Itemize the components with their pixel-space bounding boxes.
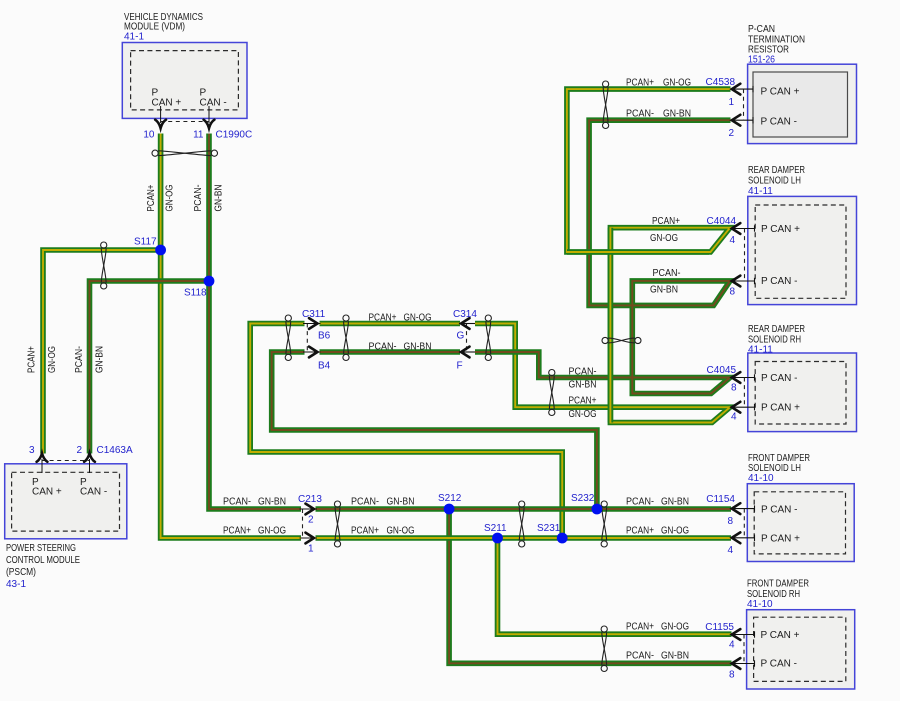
svg-text:POWER STEERING: POWER STEERING: [6, 543, 76, 554]
label PCAN+ GN-OG on wire to C4044 pin 4: [650, 216, 680, 244]
svg-text:PCAN+: PCAN+: [351, 526, 379, 537]
label PCAN- GN-BN on wire to C1155 pin 8: [626, 651, 689, 662]
label connector C1154 pins 8 and 4: [706, 494, 735, 556]
svg-text:2: 2: [76, 445, 82, 456]
svg-text:GN-OG: GN-OG: [569, 409, 597, 420]
svg-text:PCAN-: PCAN-: [569, 367, 597, 378]
svg-text:CAN +: CAN +: [152, 98, 182, 109]
wire PCAN- GN-BN from splice S212 down and right to C1155 pin 8: [449, 509, 731, 663]
svg-text:PCAN+: PCAN+: [146, 184, 157, 211]
svg-text:PCAN+: PCAN+: [626, 526, 654, 537]
connector C311 pins B6/B4 with arrows and dashed link: [303, 318, 321, 357]
svg-text:41-11: 41-11: [748, 186, 773, 197]
svg-text:8: 8: [729, 670, 735, 681]
svg-text:CONTROL MODULE: CONTROL MODULE: [6, 555, 80, 566]
label splice S231: [537, 523, 561, 534]
svg-text:43-1: 43-1: [6, 579, 26, 590]
pin text P CAN + inside front damper LH: [761, 533, 800, 544]
twisted pair symbol right of C311: [343, 315, 349, 361]
connector C314 pins G/F with arrows and dashed link: [459, 318, 475, 357]
svg-text:C1463A: C1463A: [97, 445, 133, 456]
title Power Steering Control Module: [6, 543, 80, 590]
svg-text:GN-OG: GN-OG: [663, 78, 691, 89]
connector C1463A pin stems, arrows and dashed link at PSCM: [37, 453, 95, 473]
label PCAN- GN-BN left of C213: [223, 497, 286, 508]
pin text P CAN + inside termination resistor: [761, 87, 800, 98]
splice S117: [155, 245, 166, 256]
svg-text:PCAN-: PCAN-: [369, 342, 397, 353]
svg-text:41-11: 41-11: [748, 345, 773, 356]
rear damper solenoid LH box: [748, 196, 857, 304]
wire PCAN+ GN-OG from C213 pin 1 through S211 and S231 to C1154 pin 4: [316, 535, 732, 541]
svg-text:REAR DAMPER: REAR DAMPER: [748, 324, 805, 335]
label connector C314: [453, 309, 477, 372]
connector C1990C pin stems, arrows and dashed link at VDM: [155, 106, 214, 128]
rear damper solenoid RH box: [748, 353, 857, 432]
svg-text:PCAN+: PCAN+: [652, 216, 680, 227]
svg-text:3: 3: [29, 445, 35, 456]
pin text P CAN + inside VDM: [152, 88, 182, 109]
svg-text:PCAN-: PCAN-: [74, 346, 85, 373]
svg-text:PCAN-: PCAN-: [626, 651, 654, 662]
label PCAN+ GN-OG left of C213: [223, 526, 286, 537]
pin text P CAN - inside rear damper RH: [761, 373, 798, 384]
svg-text:1: 1: [728, 97, 734, 108]
wire PCAN- GN-BN chain: S232 up, left to C311 B4, C314 F, down, to C4045 pin 8 hairpin, up, C4044 pin 8 hairpin, up to C4538 pin 2: [272, 120, 731, 509]
connector C1155 pin arrows and dashed link: [732, 629, 755, 669]
splice S212: [444, 504, 455, 515]
label PCAN+ GN-OG on wire between C311 and C314: [369, 313, 432, 324]
svg-text:S117: S117: [134, 237, 157, 248]
svg-text:P CAN -: P CAN -: [761, 373, 798, 384]
title Front Damper Solenoid LH: [748, 453, 810, 484]
svg-text:GN-BN: GN-BN: [650, 285, 678, 296]
pin text P CAN - inside VDM: [200, 88, 227, 109]
twisted pair symbol above PSCM: [101, 242, 107, 289]
pin text P CAN + inside rear damper RH: [761, 403, 800, 414]
svg-text:GN-BN: GN-BN: [663, 109, 691, 120]
title Rear Damper Solenoid RH: [748, 324, 805, 356]
svg-text:GN-OG: GN-OG: [661, 622, 689, 633]
title Front Damper Solenoid RH: [747, 579, 809, 611]
label PCAN- GN-BN on wire to C4045 pin 8: [569, 367, 597, 391]
pin text P CAN - inside termination resistor: [761, 117, 798, 128]
front damper solenoid RH box: [747, 610, 855, 689]
svg-text:41-1: 41-1: [124, 32, 144, 43]
label connector C1463A pins 3 and 2: [29, 445, 133, 456]
label PCAN+ GN-OG on wire to C4045 pin 4: [569, 396, 597, 421]
svg-text:GN-BN: GN-BN: [569, 380, 597, 391]
twisted pair symbol left of C4538: [603, 81, 609, 129]
svg-text:GN-OG: GN-OG: [165, 184, 176, 211]
pin text P CAN - inside rear damper LH: [761, 276, 798, 287]
svg-text:P CAN +: P CAN +: [761, 224, 800, 235]
twisted pair symbol between C4044 and C4045 drops: [602, 337, 641, 343]
svg-text:P-CAN: P-CAN: [748, 24, 775, 35]
title P-CAN Termination Resistor: [748, 24, 805, 66]
svg-text:P CAN -: P CAN -: [761, 505, 798, 516]
svg-text:PCAN+: PCAN+: [223, 526, 251, 537]
svg-text:F: F: [457, 361, 463, 372]
svg-text:C311: C311: [302, 309, 326, 320]
label connector C4045 pins 8 and 4: [707, 365, 737, 423]
wire PCAN+ GN-OG from splice S211 down and right to C1155 pin 4: [498, 538, 732, 634]
pin text P CAN - inside front damper RH: [761, 659, 798, 670]
svg-text:CAN -: CAN -: [80, 487, 107, 498]
svg-text:C4044: C4044: [707, 216, 737, 227]
svg-text:S118: S118: [184, 288, 207, 299]
svg-text:REAR DAMPER: REAR DAMPER: [748, 165, 805, 176]
label PCAN- GN-BN on wire between C311 and C314: [369, 342, 432, 353]
twisted pair symbol left of C311: [285, 315, 291, 361]
label splice S232: [571, 493, 595, 504]
twisted pair symbol on wires to C4045: [549, 370, 555, 416]
svg-text:PCAN+: PCAN+: [626, 78, 654, 89]
label PCAN+ GN-OG on wire to C1155 pin 4: [626, 622, 689, 633]
svg-text:C1155: C1155: [705, 622, 734, 633]
svg-text:2: 2: [728, 128, 734, 139]
vertical label PCAN- GN-BN on PSCM pin 2 wire: [74, 346, 106, 373]
svg-text:2: 2: [308, 515, 314, 526]
twisted pair symbol right of C213: [334, 501, 340, 547]
svg-text:4: 4: [729, 640, 735, 651]
label PCAN- GN-BN on wire to C1154 pin 8: [626, 497, 689, 508]
svg-text:GN-OG: GN-OG: [47, 346, 58, 373]
module PSCM (Power Steering Control Module) box: [5, 464, 127, 539]
svg-text:SOLENOID LH: SOLENOID LH: [748, 176, 801, 187]
svg-text:P CAN -: P CAN -: [761, 276, 798, 287]
svg-text:(PSCM): (PSCM): [6, 567, 36, 578]
svg-text:C1990C: C1990C: [216, 130, 253, 141]
splice S231: [557, 533, 568, 544]
label PCAN+ GN-OG right of C213: [351, 526, 415, 537]
svg-text:4: 4: [727, 545, 733, 556]
svg-text:GN-BN: GN-BN: [214, 185, 225, 212]
svg-text:C4045: C4045: [707, 365, 737, 376]
twisted pair symbol below VDM: [152, 150, 217, 156]
svg-text:CAN +: CAN +: [32, 487, 62, 498]
label PCAN- GN-BN on wire to C4538 pin 2: [626, 109, 691, 120]
label PCAN+ GN-OG on wire to C1154 pin 4: [626, 526, 689, 537]
label PCAN+ GN-OG on wire to C4538 pin 1: [626, 78, 691, 89]
svg-text:P CAN +: P CAN +: [761, 630, 800, 641]
svg-text:GN-OG: GN-OG: [650, 233, 678, 244]
svg-text:P CAN -: P CAN -: [761, 659, 798, 670]
svg-text:P CAN -: P CAN -: [761, 117, 798, 128]
svg-text:CAN -: CAN -: [200, 98, 227, 109]
svg-text:S231: S231: [537, 523, 561, 534]
label splice S118: [184, 288, 207, 299]
wire segment PCAN+ GN-OG return below C4044 pin 4 (overlay): [567, 249, 709, 255]
wire PCAN+ GN-OG from VDM pin 10 down through S117 then right to C213 pin 1: [161, 134, 301, 539]
module VDM (Vehicle Dynamics Module) box: [122, 43, 247, 119]
twisted pair symbol left of C1154 run: [519, 501, 525, 547]
label splice S212: [438, 493, 462, 504]
svg-text:GN-BN: GN-BN: [404, 342, 432, 353]
svg-text:10: 10: [143, 130, 155, 141]
wire PCAN- GN-BN from PSCM pin 2 up to splice S118: [90, 281, 210, 454]
svg-text:PCAN+: PCAN+: [27, 346, 38, 373]
svg-text:P CAN +: P CAN +: [761, 87, 800, 98]
pin text P CAN - inside PSCM: [80, 477, 107, 498]
svg-text:PCAN-: PCAN-: [626, 497, 654, 508]
svg-text:PCAN-: PCAN-: [653, 268, 681, 279]
svg-text:C1154: C1154: [706, 494, 735, 505]
pin text P CAN + inside PSCM: [32, 477, 62, 498]
vertical label PCAN+ GN-OG on PSCM pin 3 wire: [27, 346, 59, 373]
svg-text:B4: B4: [318, 361, 331, 372]
svg-text:C314: C314: [453, 309, 477, 320]
twisted pair symbol on wires to C1155: [601, 626, 607, 672]
svg-text:S212: S212: [438, 493, 462, 504]
P-CAN termination resistor box: [748, 64, 857, 143]
label PCAN- GN-BN right of C213: [351, 497, 415, 508]
label connector C311: [302, 309, 331, 372]
svg-text:1: 1: [308, 544, 314, 555]
label connector C1155 pins 4 and 8: [705, 622, 735, 681]
vertical label PCAN+ GN-OG on VDM pin 10 wire: [146, 184, 176, 211]
svg-text:G: G: [457, 331, 465, 342]
splice S118: [204, 276, 215, 287]
svg-text:8: 8: [731, 383, 737, 394]
pin text P CAN + inside rear damper LH: [761, 224, 800, 235]
svg-text:PCAN-: PCAN-: [626, 109, 654, 120]
wire PCAN+ GN-OG from PSCM pin 3 up to splice S117: [43, 250, 161, 454]
svg-text:PCAN-: PCAN-: [223, 497, 251, 508]
svg-text:PCAN+: PCAN+: [626, 622, 654, 633]
svg-text:FRONT DAMPER: FRONT DAMPER: [747, 579, 809, 590]
svg-text:P CAN +: P CAN +: [761, 533, 800, 544]
twisted pair symbol right of S232: [601, 501, 607, 547]
svg-text:PCAN-: PCAN-: [193, 185, 204, 212]
svg-text:P CAN +: P CAN +: [761, 403, 800, 414]
svg-text:8: 8: [727, 516, 733, 527]
label connector C4044 pins 4 and 8: [707, 216, 737, 298]
connector C4538 pin arrows and dashed link: [732, 84, 753, 126]
svg-text:41-10: 41-10: [747, 599, 773, 610]
pin text P CAN - inside front damper LH: [761, 505, 798, 516]
front damper solenoid LH box: [747, 484, 854, 562]
label splice S211: [484, 523, 507, 534]
vertical label PCAN- GN-BN on VDM pin 11 wire: [193, 185, 225, 212]
svg-text:8: 8: [729, 287, 735, 298]
svg-text:C213: C213: [298, 494, 322, 505]
label connector C4538 pins 1 and 2: [706, 77, 736, 139]
splice S232: [592, 504, 603, 515]
wire PCAN- GN-BN from VDM pin 11 down through S118 then right to C213 pin 2: [209, 134, 301, 510]
svg-text:GN-BN: GN-BN: [661, 651, 689, 662]
svg-text:GN-BN: GN-BN: [661, 497, 689, 508]
svg-text:4: 4: [729, 235, 735, 246]
wire PCAN- GN-BN from C213 pin 2 through S212 and S232 to C1154 pin 8: [316, 506, 732, 512]
title Rear Damper Solenoid LH: [748, 165, 805, 197]
svg-text:GN-OG: GN-OG: [387, 526, 415, 537]
label connector C1990C pins 10 and 11: [143, 130, 252, 141]
svg-text:GN-BN: GN-BN: [95, 346, 106, 373]
svg-text:S211: S211: [484, 523, 507, 534]
svg-text:151-26: 151-26: [748, 55, 775, 66]
splice S211: [492, 533, 503, 544]
svg-text:B6: B6: [318, 331, 331, 342]
svg-text:GN-OG: GN-OG: [258, 526, 286, 537]
label splice S117: [134, 237, 157, 248]
svg-text:GN-OG: GN-OG: [661, 526, 689, 537]
svg-text:GN-BN: GN-BN: [258, 497, 286, 508]
svg-text:C4538: C4538: [706, 77, 736, 88]
svg-text:S232: S232: [571, 493, 595, 504]
pin text P CAN + inside front damper RH: [761, 630, 800, 641]
svg-text:PCAN-: PCAN-: [351, 497, 379, 508]
connector C4045 pin arrows and dashed link: [732, 372, 755, 413]
wire segment PCAN+ GN-OG vertical between C4044 pin 4 and C4045 pin 4 (overlay): [608, 228, 614, 423]
connector C213 pins 2/1 with arrows and dashed link: [300, 504, 318, 544]
svg-text:GN-OG: GN-OG: [404, 313, 432, 324]
label connector C213: [298, 494, 322, 555]
label PCAN- GN-BN on wire to C4044 pin 8: [650, 268, 681, 296]
svg-text:PCAN+: PCAN+: [369, 313, 397, 324]
twisted pair symbol left of C314: [485, 315, 491, 361]
svg-text:11: 11: [193, 130, 204, 141]
svg-text:4: 4: [731, 412, 737, 423]
connector C4044 pin arrows and dashed link: [732, 223, 755, 286]
svg-text:41-10: 41-10: [748, 473, 774, 484]
svg-text:PCAN+: PCAN+: [569, 396, 597, 407]
connector C1154 pin arrows and dashed link: [732, 503, 755, 543]
wire PCAN+ GN-OG chain: S231 up, left to C311 B6, C314 G, down, to C4045 pin 4 hairpin, up, C4044 pin 4 hairpin, up to C4538 pin 1: [250, 89, 730, 538]
svg-text:GN-BN: GN-BN: [387, 497, 415, 508]
title Vehicle Dynamics Module: [124, 12, 203, 43]
